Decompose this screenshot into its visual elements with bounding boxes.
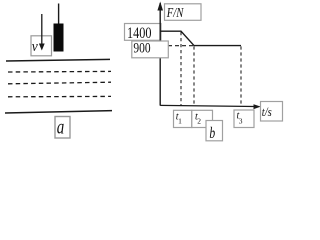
svg-text:v: v [32,39,38,55]
dashed vertical at t3 [240,46,242,106]
dashed level line 3 [8,95,111,97]
t2 label box [192,110,213,127]
t1 label box [174,110,192,127]
900 label box [132,41,169,58]
svg-text:2: 2 [197,116,201,125]
t3 label box [234,110,254,128]
svg-text:b: b [209,125,215,142]
svg-text:1: 1 [178,116,182,125]
force curve [160,31,241,45]
svg-text:F/N: F/N [166,5,184,20]
svg-text:a: a [57,117,65,139]
v label box [31,36,52,56]
velocity arrow [41,14,43,45]
figure label a box [55,117,70,139]
dashed level line 2 [8,82,111,84]
container bottom line [5,111,112,113]
dashed vertical at t1 [180,32,182,105]
F/N axis label box [165,4,202,21]
svg-text:3: 3 [239,117,243,126]
y axis F [159,3,161,106]
svg-text:1400: 1400 [127,25,152,42]
dashed level line 1 [8,70,111,73]
x axis t [160,105,256,106]
1400 label box [125,24,162,41]
t/s axis label box [261,102,283,122]
svg-text:900: 900 [133,41,150,57]
dashed horizontal at 900 level [161,45,193,47]
liquid surface line [6,59,110,61]
dashed vertical at t2 [193,46,195,105]
block (black rectangle) [54,24,64,52]
svg-text:t/s: t/s [262,104,272,119]
string above block [58,4,60,25]
figure label b box [206,121,223,141]
